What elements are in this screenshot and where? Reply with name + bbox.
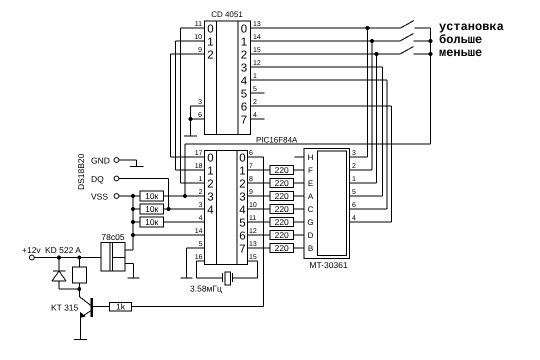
node tap pin14 bus xyxy=(370,39,374,43)
svg-text:6: 6 xyxy=(241,102,247,114)
wire U1 pin 9 to U2 pin 17 xyxy=(171,47,205,157)
wire U2 pin 7 to resistor xyxy=(248,163,271,170)
wire U2 pin 12 to resistor xyxy=(248,228,271,235)
node tap pin13 bus xyxy=(366,26,370,30)
svg-text:4: 4 xyxy=(241,76,248,88)
svg-text:8: 8 xyxy=(249,176,253,183)
wire +12v line to U3 input xyxy=(34,257,101,259)
svg-text:78c05: 78c05 xyxy=(101,232,124,242)
wire U1 pin 4 stub xyxy=(251,112,265,119)
svg-text:0: 0 xyxy=(207,24,213,36)
svg-text:E: E xyxy=(308,179,313,188)
wire resistor to HG1 pin E xyxy=(294,182,305,184)
svg-text:10к: 10к xyxy=(145,191,158,201)
svg-text:3: 3 xyxy=(198,99,202,106)
svg-text:3: 3 xyxy=(239,192,245,204)
resistor R8 220 xyxy=(270,204,294,214)
svg-text:0: 0 xyxy=(241,24,247,36)
switch S1 ustanovka xyxy=(401,21,431,29)
svg-text:14: 14 xyxy=(195,228,203,235)
wire U1 pin 13 to switch ustanovka xyxy=(251,21,401,28)
svg-text:11: 11 xyxy=(195,21,202,28)
wire resistor to HG1 pin B xyxy=(294,247,305,249)
transistor VT1 KT315 xyxy=(79,289,109,318)
node rail R3 junction xyxy=(131,220,135,224)
svg-text:18: 18 xyxy=(195,163,203,170)
label MT-30361 xyxy=(309,260,348,270)
wire U1 pin 6 to ground xyxy=(191,112,205,119)
svg-text:1: 1 xyxy=(253,73,257,80)
wire U2 pin 5 to ground xyxy=(187,241,205,278)
svg-text:2: 2 xyxy=(199,189,203,196)
svg-text:C: C xyxy=(308,205,314,214)
svg-text:6: 6 xyxy=(249,150,253,157)
label ustanovka xyxy=(439,20,504,34)
svg-text:F: F xyxy=(308,166,313,175)
resistor R7 220 xyxy=(270,191,294,201)
wire resistor to HG1 pin A xyxy=(294,195,305,197)
diode VD1 KD522A xyxy=(52,258,66,290)
svg-text:15: 15 xyxy=(249,254,257,261)
wire rail to R3 left xyxy=(133,221,140,223)
resistor R1 10k xyxy=(140,191,164,201)
svg-text:12: 12 xyxy=(253,60,261,67)
wire diode to transistor collector node xyxy=(59,288,79,290)
terminal +12v input xyxy=(22,245,41,260)
wire bus X0 to HG1 pin 3 xyxy=(350,28,368,157)
node collector junction xyxy=(77,287,81,291)
svg-text:CD 4051: CD 4051 xyxy=(211,10,243,19)
svg-text:G: G xyxy=(307,218,313,227)
wire U2 pin 6 to resistor R4 1k base drive xyxy=(248,150,264,307)
svg-text:10к: 10к xyxy=(145,204,158,214)
svg-text:7: 7 xyxy=(241,115,247,127)
wire U2 pin 3 from resistor R2 and DQ xyxy=(164,202,205,209)
svg-text:220: 220 xyxy=(275,204,289,214)
svg-text:KD 522 A: KD 522 A xyxy=(45,245,81,255)
svg-text:PIC16F84A: PIC16F84A xyxy=(256,136,298,145)
svg-text:13: 13 xyxy=(253,21,261,28)
svg-text:5: 5 xyxy=(253,86,257,93)
svg-text:4: 4 xyxy=(199,215,203,222)
ground U1 xyxy=(184,119,197,136)
wire U2 pin 11 to resistor xyxy=(248,215,271,222)
svg-text:0: 0 xyxy=(239,153,245,165)
svg-text:7: 7 xyxy=(249,163,253,170)
resistor R2 10k xyxy=(140,204,164,214)
wire U1 pin 5 stub xyxy=(251,86,265,93)
wire resistor to HG1 pin D xyxy=(294,234,305,236)
label menshe xyxy=(439,46,482,60)
svg-text:14: 14 xyxy=(253,34,261,41)
wire rail to R2 left xyxy=(133,208,140,210)
wire U2 pin 8 to resistor xyxy=(248,176,271,183)
svg-text:5: 5 xyxy=(352,189,356,196)
sensor U4 DS18B20 label xyxy=(76,153,86,190)
wire U1 pin 1 to HG1 pin 6 xyxy=(251,73,388,209)
svg-text:4: 4 xyxy=(253,112,257,119)
wire U2 pin 9 to resistor xyxy=(248,189,271,196)
svg-text:2: 2 xyxy=(253,99,257,106)
resistor R5 220 xyxy=(270,165,294,175)
svg-text:установка: установка xyxy=(439,20,504,34)
label KT 315 xyxy=(51,303,79,313)
op-amp U1 CD4051 IC body xyxy=(205,10,251,135)
svg-text:2: 2 xyxy=(207,179,213,191)
svg-text:1: 1 xyxy=(239,166,245,178)
wire U2 pin 4 from resistor R3 xyxy=(164,215,205,222)
svg-text:H: H xyxy=(308,153,314,162)
svg-text:3.58мГц: 3.58мГц xyxy=(190,284,222,294)
wire HG1 pin H stub xyxy=(295,156,305,158)
wire U2 pin 14 VDD rail xyxy=(133,228,205,235)
svg-text:220: 220 xyxy=(275,217,289,227)
resistor R4 1k xyxy=(110,302,132,312)
wire +5V rail vertical xyxy=(132,196,134,250)
switch S2 bolshe xyxy=(400,34,431,42)
node rail VSS junction xyxy=(131,194,135,198)
regulator U3 78c05 body xyxy=(101,232,125,271)
svg-text:10: 10 xyxy=(249,202,257,209)
ground U2 pin 5 xyxy=(181,277,193,279)
svg-text:GND: GND xyxy=(91,156,110,166)
label 3.58MHz xyxy=(190,284,222,294)
svg-text:10к: 10к xyxy=(145,217,158,227)
resistor R10 220 xyxy=(270,230,294,240)
wire GND to ground xyxy=(119,160,137,167)
wire U2 pin 2 from resistor R1 xyxy=(164,189,205,196)
svg-text:+12v: +12v xyxy=(22,245,41,255)
node R bias top junction xyxy=(77,256,81,260)
ground DS18B20 xyxy=(130,166,144,168)
node junction common at U2 pin 2 xyxy=(183,194,187,198)
wire U1 pin 11 to U2 pin 1 xyxy=(181,21,205,183)
node rail R2 junction xyxy=(131,207,135,211)
svg-text:5: 5 xyxy=(241,89,247,101)
switch S3 menshe xyxy=(400,47,431,55)
svg-text:12: 12 xyxy=(249,228,257,235)
terminal DQ of DS18B20 xyxy=(91,174,119,184)
ground VT1 emitter xyxy=(74,339,87,341)
svg-text:1k: 1k xyxy=(116,302,126,312)
svg-text:220: 220 xyxy=(275,230,289,240)
crystal ZQ1 3.58MHz xyxy=(223,272,233,285)
svg-text:3: 3 xyxy=(352,150,356,157)
svg-text:4: 4 xyxy=(352,215,356,222)
svg-text:11: 11 xyxy=(249,215,256,222)
wire U1 pin 2 to HG1 pin 4 xyxy=(251,99,392,222)
resistor bias box xyxy=(73,258,87,290)
svg-text:KT 315: KT 315 xyxy=(51,303,79,313)
display HG1 MT-30361 body xyxy=(304,149,350,259)
svg-text:меньше: меньше xyxy=(439,46,482,60)
U1 CD4051 right channel digits 0-7 xyxy=(241,24,248,127)
wire U2 pin 16 to crystal xyxy=(195,254,223,278)
svg-text:3: 3 xyxy=(207,192,213,204)
wire bus X2 to HG1 pin 1 xyxy=(350,54,377,183)
wire U1 pin 10 to U2 pin 18 xyxy=(176,34,205,170)
wire resistor to HG1 pin F xyxy=(294,169,305,171)
node S3 common junction xyxy=(429,52,433,56)
svg-text:3: 3 xyxy=(199,202,203,209)
label KD 522 A xyxy=(45,245,81,255)
svg-text:D: D xyxy=(308,231,314,240)
svg-text:1: 1 xyxy=(352,176,356,183)
svg-text:1: 1 xyxy=(199,176,203,183)
HG1 segment letters xyxy=(307,153,313,253)
svg-text:5: 5 xyxy=(239,218,245,230)
wire U2 pin 15 to crystal xyxy=(233,254,258,278)
wire VSS to +5V rail xyxy=(119,195,140,197)
resistor R3 10k xyxy=(140,217,164,227)
svg-text:0: 0 xyxy=(207,153,213,165)
terminal GND of DS18B20 xyxy=(91,156,119,166)
node S2 common junction xyxy=(429,39,433,43)
svg-text:220: 220 xyxy=(275,178,289,188)
wire bus X1 to HG1 pin 2 xyxy=(350,41,373,170)
wire U3 ground pin xyxy=(125,264,134,279)
node junction rail pin14 xyxy=(131,233,135,237)
resistor R6 220 xyxy=(270,178,294,188)
svg-text:5: 5 xyxy=(199,241,203,248)
node diode VD1 top junction xyxy=(57,256,61,260)
svg-text:10: 10 xyxy=(194,34,202,41)
svg-text:220: 220 xyxy=(275,243,289,253)
svg-text:2: 2 xyxy=(239,179,245,191)
svg-text:DS18B20: DS18B20 xyxy=(76,153,86,190)
svg-text:2: 2 xyxy=(241,50,247,62)
wire switch common vertical xyxy=(430,28,432,144)
op-amp U2 PIC16F84A IC body xyxy=(205,136,299,265)
wire DQ to U2 pin 3 xyxy=(119,179,169,210)
node junction DQ R2 pin3 xyxy=(167,207,171,211)
terminal VSS of DS18B20 xyxy=(91,192,119,202)
svg-text:2: 2 xyxy=(207,50,213,62)
svg-text:4: 4 xyxy=(207,205,214,217)
svg-text:9: 9 xyxy=(249,189,253,196)
svg-text:4: 4 xyxy=(239,205,246,217)
svg-text:16: 16 xyxy=(195,254,203,261)
wire U1 pin 15 to switch menshe xyxy=(251,47,401,54)
wire switch common return to U2 pin 2 xyxy=(185,144,431,196)
resistor R11 220 xyxy=(270,243,294,253)
wire U2 pin 13 to resistor xyxy=(248,241,271,248)
label bolshe xyxy=(439,33,482,47)
wire U1 pin 3 to ground xyxy=(191,99,205,119)
svg-text:2: 2 xyxy=(352,163,356,170)
svg-text:9: 9 xyxy=(198,47,202,54)
svg-text:A: A xyxy=(308,192,314,201)
svg-text:6: 6 xyxy=(198,112,202,119)
svg-text:больше: больше xyxy=(439,33,482,47)
node tap pin15 bus xyxy=(375,52,379,56)
wire resistor to HG1 pin C xyxy=(294,208,305,210)
U2 right port digits 0-7 xyxy=(239,153,246,256)
svg-text:1: 1 xyxy=(207,166,213,178)
svg-text:15: 15 xyxy=(253,47,261,54)
wire U3 output to rail xyxy=(125,249,133,251)
svg-text:13: 13 xyxy=(249,241,257,248)
svg-text:6: 6 xyxy=(239,231,245,243)
svg-text:17: 17 xyxy=(195,150,203,157)
svg-text:6: 6 xyxy=(352,202,356,209)
wire 1k to U2 pin 6 xyxy=(132,306,264,308)
wire U1 pin 14 to switch bolshe xyxy=(251,34,401,41)
wire U1 pin 12 to HG1 pin 5 xyxy=(251,60,383,196)
svg-text:220: 220 xyxy=(275,165,289,175)
resistor R9 220 xyxy=(270,217,294,227)
U1 CD4051 left channel digits 0 1 2 xyxy=(207,24,213,62)
ground U3 xyxy=(128,277,140,279)
wire resistor to HG1 pin G xyxy=(294,221,305,223)
svg-text:220: 220 xyxy=(275,191,289,201)
svg-text:DQ: DQ xyxy=(91,174,104,184)
U2 left port digits 0-4 xyxy=(207,153,214,217)
svg-text:MT-30361: MT-30361 xyxy=(309,260,348,270)
svg-text:3: 3 xyxy=(241,63,247,75)
svg-text:1: 1 xyxy=(207,37,213,49)
wire emitter to ground xyxy=(80,318,82,340)
svg-text:VSS: VSS xyxy=(91,192,108,202)
node junction U1 pins 3-6 xyxy=(189,117,193,121)
wire U2 pin 10 to resistor xyxy=(248,202,271,209)
svg-text:B: B xyxy=(308,244,313,253)
svg-text:1: 1 xyxy=(241,37,247,49)
svg-text:7: 7 xyxy=(239,244,245,256)
